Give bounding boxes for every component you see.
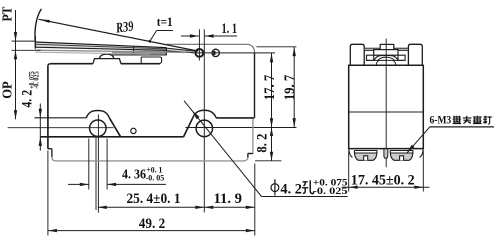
svg-text:19. 7: 19. 7 — [282, 75, 298, 100]
svg-text:OP: OP — [0, 81, 15, 99]
svg-text:25. 4±0. 1: 25. 4±0. 1 — [127, 191, 181, 207]
svg-text:R39: R39 — [114, 19, 134, 37]
svg-text:8. 2: 8. 2 — [255, 134, 271, 153]
svg-text:11. 9: 11. 9 — [214, 191, 243, 207]
svg-text:49. 2: 49. 2 — [139, 216, 165, 232]
svg-text:4. 36: 4. 36 — [122, 167, 146, 182]
svg-text:17. 45±0. 2: 17. 45±0. 2 — [351, 172, 415, 188]
svg-text:4. 2: 4. 2 — [280, 181, 302, 197]
svg-text:-0. 025: -0. 025 — [34, 71, 41, 89]
svg-text:-0. 05: -0. 05 — [146, 172, 165, 182]
svg-text:6-M3: 6-M3 — [430, 114, 452, 126]
svg-text:t=1: t=1 — [157, 14, 173, 29]
svg-text:PT: PT — [0, 7, 15, 22]
svg-text:1. 1: 1. 1 — [222, 21, 238, 37]
svg-text:17. 7: 17. 7 — [262, 75, 278, 100]
svg-text:4. 2: 4. 2 — [19, 90, 35, 108]
